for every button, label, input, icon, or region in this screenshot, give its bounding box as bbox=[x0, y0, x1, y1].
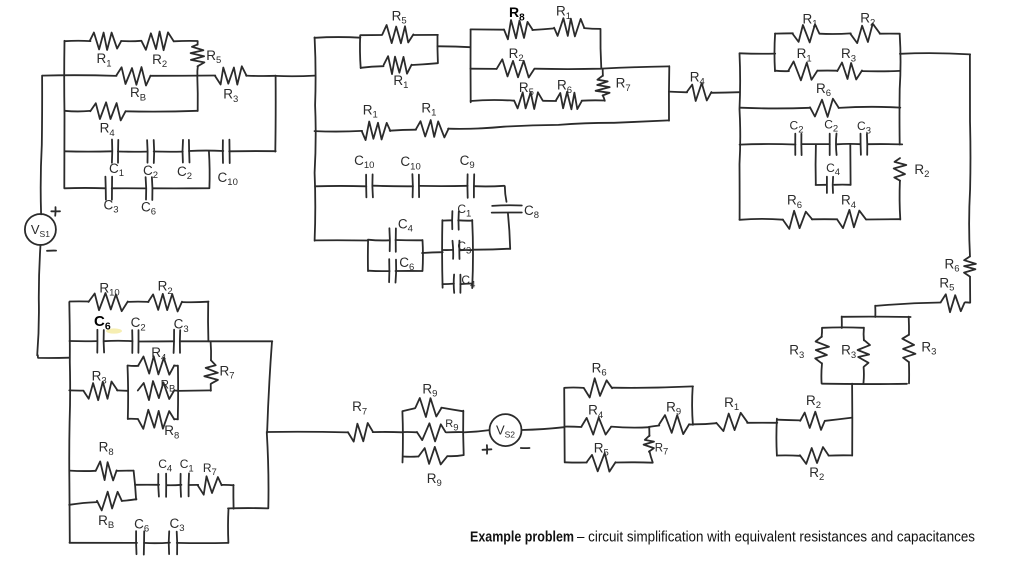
wire bbox=[118, 151, 147, 153]
wire bbox=[821, 328, 823, 337]
wire: step down bbox=[841, 317, 843, 329]
wire: VS2 block left edge bbox=[563, 388, 566, 463]
capacitor C2 (top-left block) bbox=[147, 140, 154, 163]
wire: top-right bottom row bbox=[740, 218, 784, 221]
wire: group right edge bbox=[177, 366, 179, 419]
resistor R2 (top-left block) bbox=[141, 32, 173, 51]
wire: top-right block left edge bbox=[739, 53, 742, 219]
wire bbox=[189, 150, 223, 152]
capacitor C4 (top-right loop) bbox=[827, 177, 833, 193]
resistor R7 (bottom-left series) bbox=[198, 476, 222, 494]
wire: R2 pair left edge bbox=[775, 419, 778, 456]
wire bbox=[116, 470, 133, 472]
resistor R7 vertical (middle sub-block) bbox=[596, 76, 610, 96]
wire bbox=[174, 389, 178, 391]
wire: series row bbox=[135, 484, 159, 486]
wire: triple caps right edge bbox=[471, 220, 474, 288]
wire: triple R3 bottom edge bbox=[822, 383, 907, 385]
resistor R3 vertical (right) bbox=[902, 335, 915, 362]
resistor R1 (top-left block) bbox=[90, 33, 121, 51]
wire: cap row bbox=[70, 340, 98, 342]
resistor R8 (pair top) bbox=[96, 461, 117, 480]
wire: bottom-left block left edge bbox=[68, 302, 71, 543]
wire bbox=[442, 249, 452, 251]
capacitor C3 (middle triple) bbox=[453, 241, 460, 259]
wire: top loop right edge bbox=[183, 302, 209, 342]
wire: VS2 block right edge bbox=[691, 386, 694, 424]
wire bbox=[413, 34, 438, 36]
wire: R9 triple left edge bbox=[401, 411, 404, 462]
resistor R6 (VS2 block) bbox=[584, 378, 612, 397]
resistor R2 (pair bottom) bbox=[800, 447, 829, 464]
wire bbox=[612, 386, 693, 387]
wire: middle cap row bbox=[315, 185, 366, 187]
wire bbox=[965, 277, 970, 303]
resistor R9 (VS2 block) bbox=[659, 415, 689, 434]
wire bbox=[446, 431, 463, 433]
wire: top-left block left edge bbox=[63, 41, 65, 188]
wire: to triple R3 block bbox=[875, 303, 941, 318]
resistor R5 (middle pair top) bbox=[382, 25, 413, 43]
plus sign VS2 bbox=[483, 445, 492, 454]
resistor R4 (VS2 block) bbox=[581, 418, 611, 435]
resistor R1 second (middle row) bbox=[416, 120, 449, 137]
wire: right edge lower bbox=[899, 181, 902, 220]
wire: bottom-left outer right edge bbox=[267, 341, 272, 508]
capacitor C6 (bottom row) bbox=[136, 531, 144, 554]
resistor R7 vertical (VS2 block) bbox=[644, 436, 654, 452]
capacitor C9 (middle) bbox=[467, 174, 474, 198]
wire bbox=[403, 408, 415, 411]
resistor R9 (triple middle) bbox=[417, 423, 446, 441]
wire bbox=[829, 454, 853, 456]
wire: cap row2 bbox=[64, 187, 105, 189]
wire: R3 row to R7 bbox=[178, 389, 211, 392]
wire: R1R1 row to right edge bbox=[448, 120, 669, 128]
wire bbox=[747, 422, 777, 424]
wire: to inner box bbox=[740, 52, 776, 54]
wire bbox=[866, 218, 900, 220]
resistor R1 (middle pair bottom) bbox=[384, 56, 412, 74]
wire bbox=[863, 328, 865, 341]
wire bbox=[812, 218, 837, 220]
wire: C8 bottom to triple block bbox=[472, 213, 510, 250]
resistor R5 vertical (top-left block) bbox=[191, 45, 205, 67]
wire bbox=[396, 239, 422, 241]
wire bbox=[402, 431, 417, 433]
plus sign VS1 bbox=[51, 207, 60, 216]
wire: pair right edge bbox=[134, 471, 137, 500]
wire bbox=[689, 423, 692, 425]
resistor R3 vertical (middle) bbox=[858, 340, 870, 367]
wire: R5 row bbox=[565, 461, 587, 463]
wire: long wire from bottom-left block bbox=[267, 431, 348, 434]
wire bbox=[150, 75, 215, 77]
wire: row2 left from VS1 feed bbox=[42, 74, 116, 77]
wire bbox=[246, 75, 276, 77]
wire: group left edge bbox=[127, 366, 130, 419]
wire R5 to row2 bbox=[196, 67, 198, 77]
resistor R1 (middle row) bbox=[362, 122, 391, 141]
wire: middle block outer right edge bbox=[668, 66, 670, 121]
wire: middle bottom row bbox=[315, 239, 368, 241]
wire: exit to far right bbox=[900, 53, 970, 54]
wire bbox=[880, 33, 900, 35]
wire bbox=[390, 130, 416, 131]
wire bbox=[229, 150, 276, 152]
wire: pair right edge bbox=[422, 240, 424, 271]
wire bbox=[862, 367, 865, 384]
resistor R6 (middle sub-block) bbox=[556, 92, 582, 109]
minus sign VS1 bbox=[47, 250, 56, 252]
wire bbox=[825, 418, 852, 421]
capacitor C4 (bottom-left series) bbox=[158, 474, 166, 497]
wire bbox=[908, 317, 910, 335]
wire bbox=[122, 499, 137, 501]
wire: R1R1 row lead bbox=[315, 130, 363, 133]
wire: C4 loop left bbox=[816, 144, 826, 185]
resistor R3 (top-left block) bbox=[215, 66, 247, 84]
wire bbox=[908, 362, 910, 383]
resistor R5 (middle sub-block) bbox=[514, 92, 543, 109]
wire: VS2 to block bbox=[522, 427, 564, 430]
wire bbox=[373, 431, 403, 433]
capacitor C2 second (top-right) bbox=[830, 134, 837, 156]
capacitor C10 second (middle) bbox=[412, 174, 419, 197]
wire: pair to sub-block bbox=[438, 45, 471, 48]
wire: R7 top stub bbox=[210, 341, 212, 360]
wire: top row bbox=[70, 300, 89, 302]
capacitor C1 (bottom-left series) bbox=[180, 473, 189, 496]
wire bbox=[189, 484, 198, 486]
wire bbox=[837, 143, 861, 145]
resistor R9 (triple top) bbox=[415, 398, 441, 417]
resistor R7 vertical (bottom-left) bbox=[204, 360, 218, 383]
capacitor C1 (top-left block) bbox=[112, 140, 118, 163]
wire: R6 row bbox=[565, 387, 584, 389]
wire bbox=[121, 40, 141, 42]
wire: R3 row bbox=[69, 389, 83, 391]
resistor R6 (top-right) bbox=[810, 99, 839, 117]
wire: R8 pair top row bbox=[70, 470, 96, 472]
svg-text:Example problem: Example problem bbox=[470, 529, 574, 546]
wire: inner box left edge bbox=[773, 34, 776, 72]
resistor R2 (pair top) bbox=[800, 412, 825, 430]
wire: series row down bbox=[221, 485, 233, 509]
wire bbox=[820, 363, 823, 383]
wire bbox=[582, 99, 605, 101]
wire: sub-block left edge bbox=[470, 30, 472, 102]
wire bbox=[361, 34, 382, 36]
wire bbox=[117, 389, 128, 391]
wire: R5R6 row lead bbox=[471, 100, 514, 101]
wire: pair to triple caps bbox=[422, 251, 443, 254]
resistor R9 (triple bottom) bbox=[419, 447, 448, 465]
capacitor C8 bbox=[492, 205, 522, 212]
wire bbox=[460, 283, 472, 286]
wire: VS2 left lead bbox=[463, 430, 489, 432]
capacitor C1 (middle triple) bbox=[452, 211, 459, 230]
wire bbox=[862, 70, 900, 72]
wire bbox=[361, 66, 384, 68]
wire bbox=[144, 542, 170, 545]
wire bbox=[867, 143, 902, 145]
resistor R2 (middle sub-block) bbox=[497, 59, 535, 77]
wire bbox=[839, 107, 901, 108]
wire: R6 row bbox=[740, 107, 810, 110]
resistor R8 (group bottom) bbox=[138, 410, 174, 429]
capacitor C3 (bottom row) bbox=[169, 531, 178, 554]
wire: top-left block right edge bbox=[274, 76, 276, 152]
resistor R2 (top-right inner top) bbox=[850, 24, 879, 43]
wire bbox=[174, 365, 178, 367]
wire: triple R3 top edge B bbox=[822, 326, 864, 328]
wire bbox=[775, 32, 793, 34]
resistor R2 vertical (top-right) bbox=[894, 158, 907, 181]
wire bbox=[543, 100, 556, 102]
capacitor C3 (top-right) bbox=[861, 134, 868, 155]
resistor R8 (group middle) bbox=[138, 381, 174, 400]
wire: far right vertical bbox=[969, 54, 970, 256]
wire: row2 up to row1 bbox=[152, 151, 209, 188]
voltage source VS1 bbox=[25, 214, 56, 245]
resistor R3 vertical (left) bbox=[815, 336, 829, 363]
wire bbox=[532, 28, 554, 30]
capacitor C6 (middle pair) bbox=[389, 259, 396, 282]
voltage source VS2 bbox=[490, 414, 522, 446]
wire: middle top lead bbox=[315, 36, 361, 39]
wire bbox=[441, 408, 463, 412]
capacitor C4 (middle pair) bbox=[389, 228, 396, 252]
capacitor C6 (top-left block) bbox=[146, 177, 153, 200]
capacitor C4 (middle triple) bbox=[454, 275, 461, 293]
wire bbox=[447, 455, 463, 456]
wire bbox=[442, 219, 452, 221]
wire bbox=[777, 419, 800, 422]
wire bbox=[368, 270, 389, 272]
resistor R1 (bottom right) bbox=[716, 413, 747, 431]
wire: top-right right edge upper bbox=[900, 34, 901, 144]
wire bbox=[104, 340, 133, 342]
wire bbox=[649, 426, 659, 427]
wire: pair left edge bbox=[359, 35, 362, 68]
minus sign VS2 bbox=[521, 447, 530, 449]
capacitor C2 (bottom-left) bbox=[132, 330, 138, 353]
wire: pair left edge bbox=[367, 240, 369, 271]
wire: VS1 negative lead to bottom-left block bbox=[37, 245, 69, 358]
wire: pair right edge bbox=[436, 35, 438, 63]
wire bbox=[368, 239, 389, 242]
wire: cap row to right edge bbox=[180, 340, 272, 342]
capacitor C6 (bottom-left) bbox=[97, 330, 104, 353]
wire: drop to R2 pair right edge bbox=[851, 384, 853, 456]
wire bbox=[611, 427, 649, 428]
wire bbox=[154, 151, 183, 153]
capacitor C3 (bottom-left) bbox=[174, 330, 181, 353]
wire: C4 loop right bbox=[834, 144, 850, 185]
wire: link down to bottom row bbox=[227, 509, 229, 543]
capacitor C10 (top-left block) bbox=[223, 140, 230, 164]
wire bbox=[174, 418, 178, 420]
resistor R4 (top-left block) bbox=[90, 102, 125, 120]
resistor R6 (top-right bottom) bbox=[783, 211, 812, 229]
wire bbox=[474, 185, 504, 188]
wire: VS1 positive lead bbox=[41, 76, 42, 215]
wire bbox=[419, 185, 467, 187]
capacitor C10 (middle) bbox=[366, 174, 373, 197]
wire: cap row1 bbox=[65, 150, 112, 152]
wire: sub top right corner down bbox=[584, 28, 601, 68]
resistor R2 (bottom-left) bbox=[148, 294, 182, 312]
wire: R4 link lead bbox=[669, 91, 687, 94]
wire bbox=[442, 283, 454, 286]
wire: bottom row bbox=[70, 542, 138, 544]
wire: R4 row bbox=[565, 426, 582, 428]
wire bbox=[711, 91, 740, 94]
capacitor C2 (top-right) bbox=[795, 134, 801, 155]
wire bbox=[167, 484, 182, 486]
resistor R5 (far right) bbox=[941, 294, 965, 312]
resistor R1 (top-right inner top) bbox=[792, 24, 819, 42]
wire: R9 triple right edge bbox=[462, 411, 465, 455]
wire: top row lead bbox=[65, 40, 91, 42]
wire: middle block left edge bbox=[315, 37, 316, 240]
wire bbox=[777, 454, 800, 456]
wire bbox=[112, 187, 146, 189]
wire: R7 top stub bbox=[648, 427, 650, 436]
wire: sub top row lead bbox=[471, 28, 505, 30]
wire: triple R3 top edge A bbox=[842, 316, 911, 318]
wire bbox=[775, 70, 789, 72]
wire bbox=[412, 63, 438, 65]
wire bbox=[459, 249, 472, 251]
resistor R8 (top-left block row2) bbox=[116, 67, 150, 85]
wire: R2 row lead bbox=[470, 68, 496, 70]
resistor R6 vertical (far right) bbox=[964, 257, 976, 277]
wire: R7 top stub bbox=[602, 69, 604, 76]
wire bbox=[818, 70, 837, 72]
wire: R8 pair bottom row bbox=[69, 502, 97, 505]
wire: down to C8 bbox=[505, 186, 507, 202]
wire bbox=[139, 340, 174, 342]
capacitor C3 (top-left block) bbox=[105, 177, 112, 200]
resistor R3 (top-right inner bottom) bbox=[837, 63, 862, 80]
resistor R4 (link) bbox=[687, 83, 712, 101]
resistor R4 (group top) bbox=[138, 356, 174, 375]
wire to R5 bbox=[174, 41, 198, 45]
wire: top-right cap row bbox=[740, 143, 796, 146]
wire: triple caps left edge bbox=[441, 220, 444, 288]
wire bbox=[177, 542, 228, 544]
wire bbox=[126, 110, 198, 113]
resistor R10 (bottom-left) bbox=[89, 293, 128, 311]
resistor R4 (top-right bottom) bbox=[837, 210, 866, 228]
wire bbox=[801, 143, 829, 145]
wire: R2 row to outer right bbox=[535, 66, 670, 69]
wire bbox=[128, 365, 139, 367]
resistor R3 (bottom-left) bbox=[84, 382, 118, 401]
svg-text:– circuit simplification with: – circuit simplification with equivalent… bbox=[577, 529, 975, 546]
wire: R5 row up to R7 bbox=[616, 451, 653, 463]
wire bbox=[128, 301, 149, 303]
wire bbox=[128, 418, 138, 420]
resistor R7 (bottom middle) bbox=[348, 423, 373, 442]
resistor R5 (VS2 block) bbox=[587, 453, 616, 472]
resistor R8 (middle sub-block top) bbox=[504, 20, 533, 39]
resistor R1 (top-right inner bottom) bbox=[788, 61, 817, 80]
wire bbox=[458, 219, 472, 221]
resistor R8 (pair bottom) bbox=[97, 492, 122, 511]
wire bbox=[403, 456, 418, 458]
wire: link top-left block to middle block bbox=[276, 75, 315, 78]
highlight mark bbox=[106, 328, 122, 333]
wire: R7 bottom stub bbox=[603, 95, 605, 101]
wire: link to right edge bbox=[228, 507, 268, 509]
wire bbox=[210, 384, 212, 391]
capacitor C2 second (top-left block) bbox=[183, 140, 190, 163]
wire bbox=[396, 270, 423, 272]
resistor R1 (middle sub-block top) bbox=[554, 18, 584, 36]
wire bbox=[819, 32, 850, 35]
wire: R4 row lead bbox=[65, 110, 90, 113]
wire: vertical junction below R5 bbox=[196, 76, 198, 111]
wire bbox=[372, 185, 413, 188]
wire: to R1 bbox=[693, 423, 717, 424]
